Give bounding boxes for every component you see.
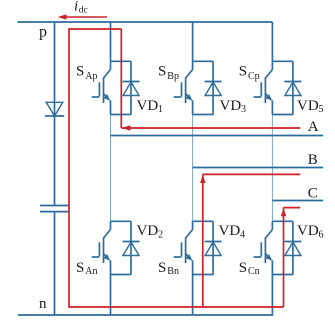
wire: leg A from p rail <box>110 22 112 61</box>
transistor S_An (IGBT) <box>92 221 111 274</box>
diode VD2 (freewheeling) <box>123 242 140 256</box>
wire: leg A midsection <box>110 115 112 222</box>
wire: C-bottom cell top rung <box>272 220 293 222</box>
transistor S_Bp (IGBT) <box>174 61 193 114</box>
wire: leg B from p rail <box>192 22 194 61</box>
svg-text:Cn: Cn <box>248 266 260 277</box>
svg-text:1: 1 <box>158 104 163 115</box>
wire: A-bottom diode branch <box>130 221 132 274</box>
label S_Bp <box>158 64 179 82</box>
svg-text:dc: dc <box>79 6 88 16</box>
svg-text:VD: VD <box>297 98 319 114</box>
transistor S_Bn (IGBT) <box>174 221 193 274</box>
wire: A-bottom cell top rung <box>111 220 132 222</box>
capacitor C (dc-link) <box>40 206 69 212</box>
transistor S_Ap (IGBT) <box>92 61 111 114</box>
wire: C-bottom cell bottom rung <box>272 274 293 276</box>
wire: red path up leg C <box>283 208 285 307</box>
arrow: i_dc direction (points left) <box>58 14 107 20</box>
label VD6 <box>297 223 324 241</box>
diode VD4 (freewheeling) <box>205 242 222 256</box>
wire: phase output C <box>272 200 323 202</box>
wire: C-top diode branch <box>292 61 294 114</box>
diode (input/clamp diode, left branch) <box>45 102 64 116</box>
wire: B-bottom cell top rung <box>193 220 214 222</box>
wire: red path top segment <box>69 28 121 30</box>
wire: red path phase A out <box>121 127 300 129</box>
svg-text:S: S <box>239 260 247 276</box>
svg-text:Ap: Ap <box>85 71 97 82</box>
diode VD3 (freewheeling) <box>205 82 222 96</box>
svg-text:Cp: Cp <box>248 71 260 82</box>
wire: leg C midsection <box>271 115 273 222</box>
arrow: current into node A (points left) <box>122 125 131 130</box>
svg-text:S: S <box>76 260 84 276</box>
wire: phase output A <box>111 135 324 137</box>
wire: C-top cell bottom rung <box>272 114 293 116</box>
wire: B-top cell bottom rung <box>193 114 214 116</box>
label node C <box>308 185 318 201</box>
label node A <box>308 119 319 135</box>
wire: leg B midsection <box>192 115 194 222</box>
label VD1 <box>137 98 164 115</box>
wire: left branch lower <box>54 212 56 315</box>
svg-text:B: B <box>308 152 318 168</box>
wire: positive rail p <box>18 21 273 23</box>
svg-text:VD: VD <box>220 98 242 114</box>
label VD2 <box>137 223 164 241</box>
wire: B-top cell top rung <box>193 60 214 62</box>
svg-text:VD: VD <box>137 223 159 239</box>
svg-text:VD: VD <box>219 223 241 239</box>
svg-text:VD: VD <box>137 98 159 114</box>
label S_Ap <box>76 64 98 82</box>
diode VD6 (freewheeling) <box>284 242 301 256</box>
svg-text:4: 4 <box>240 229 245 240</box>
wire: red path up leg B <box>202 174 204 307</box>
wire: leg B to n rail <box>192 275 194 316</box>
label S_Cn <box>239 260 260 277</box>
label S_An <box>76 260 98 277</box>
label S_Bn <box>158 260 179 277</box>
wire: left branch upper <box>54 22 56 116</box>
wire: red path phase C out <box>284 207 301 209</box>
wire: A-top cell top rung <box>111 60 132 62</box>
arrow: current out of leg B (points up) <box>200 175 205 183</box>
wire: B-bottom diode branch <box>212 221 214 274</box>
svg-text:i: i <box>74 0 78 14</box>
wire: left branch middle <box>54 116 56 206</box>
wire: A-bottom cell bottom rung <box>111 274 132 276</box>
svg-text:S: S <box>158 260 166 276</box>
wire: red path bottom segment <box>68 306 283 308</box>
svg-text:6: 6 <box>319 229 324 240</box>
wire: A-top cell bottom rung <box>111 114 132 116</box>
svg-text:A: A <box>308 119 319 135</box>
svg-text:VD: VD <box>297 223 319 239</box>
svg-text:n: n <box>39 296 47 312</box>
svg-text:p: p <box>39 24 47 41</box>
label S_Cp <box>239 64 260 82</box>
wire: C-top cell top rung <box>272 60 293 62</box>
transistor S_Cn (IGBT) <box>254 221 273 274</box>
wire: red path left segment <box>68 28 70 307</box>
wire: C-bottom diode branch <box>292 221 294 274</box>
label node B <box>308 152 318 168</box>
label p (positive bus) <box>39 24 47 41</box>
svg-text:2: 2 <box>158 229 163 240</box>
svg-text:An: An <box>85 266 97 277</box>
svg-text:C: C <box>308 185 318 201</box>
label VD3 <box>220 98 247 115</box>
label VD4 <box>219 223 246 241</box>
label i_dc (dc-link current) <box>74 0 88 16</box>
svg-text:5: 5 <box>319 104 324 115</box>
wire: leg C to n rail <box>271 275 273 316</box>
label VD5 <box>297 98 324 115</box>
wire: A-top diode branch <box>130 61 132 114</box>
svg-text:S: S <box>239 64 247 80</box>
wire: B-bottom cell bottom rung <box>193 274 214 276</box>
svg-text:S: S <box>158 64 166 80</box>
transistor S_Cp (IGBT) <box>254 61 273 114</box>
wire: red path down leg A <box>120 29 122 128</box>
wire: negative rail n <box>18 314 273 316</box>
arrow: current out of leg C (points up) <box>281 208 286 216</box>
wire: leg A to n rail <box>110 275 112 316</box>
wire: leg C from p rail <box>271 22 273 61</box>
svg-text:3: 3 <box>241 104 246 115</box>
diode VD1 (freewheeling) <box>123 82 140 96</box>
svg-text:S: S <box>76 64 84 80</box>
label n (negative bus) <box>39 296 47 312</box>
diode VD5 (freewheeling) <box>284 82 301 96</box>
svg-text:Bp: Bp <box>167 71 179 82</box>
wire: red path phase B out <box>203 173 300 175</box>
svg-text:Bn: Bn <box>167 266 179 277</box>
wire: phase output B <box>193 167 323 169</box>
wire: B-top diode branch <box>212 61 214 114</box>
